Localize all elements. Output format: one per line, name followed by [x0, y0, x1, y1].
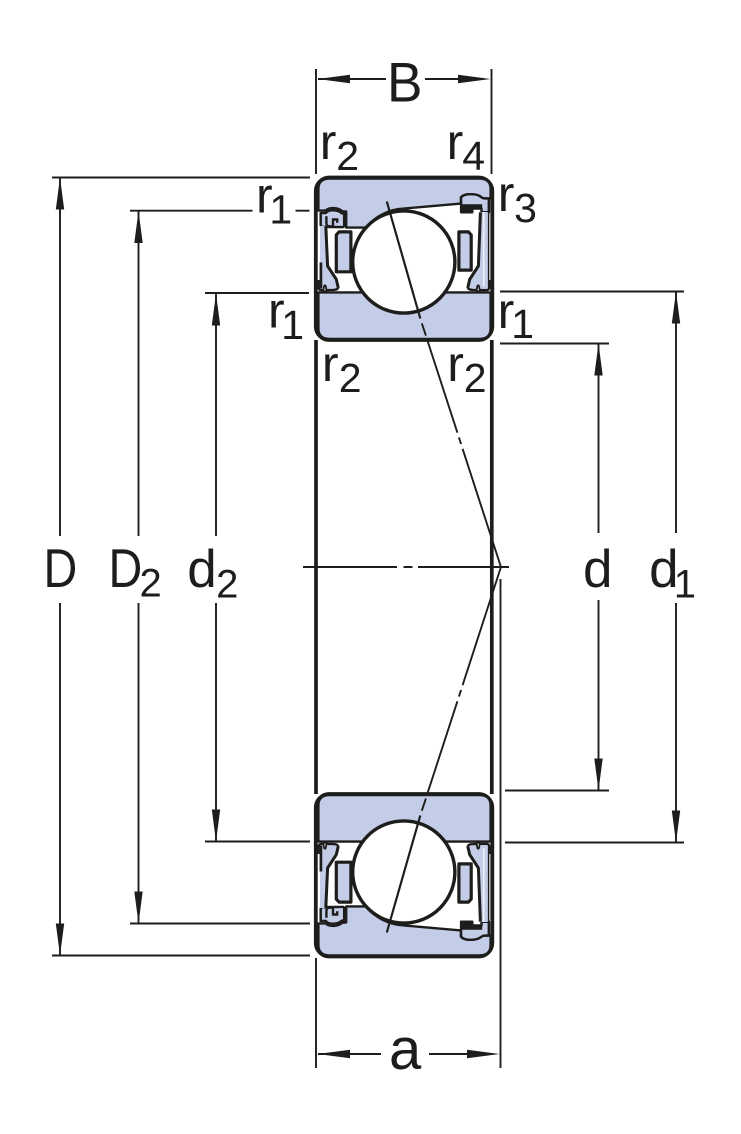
center axis dash-dot: [303, 566, 509, 568]
extension lines d: [500, 344, 609, 791]
extension line a right (contact point): [500, 579, 502, 1068]
extension lines D: [52, 178, 310, 956]
bearing side faces between sections: [316, 340, 492, 794]
svg-text:D: D: [44, 537, 78, 598]
svg-text:1: 1: [511, 301, 534, 347]
svg-text:d: d: [187, 540, 216, 599]
dimension B: [318, 75, 491, 83]
svg-text:r: r: [320, 114, 337, 170]
dimension d2: [212, 294, 220, 842]
svg-text:2: 2: [464, 355, 487, 401]
extension lines D2 (top gap for r1 label): [130, 211, 310, 924]
dimension d1: [672, 292, 680, 843]
svg-text:r: r: [447, 336, 464, 392]
dimension d: [594, 344, 602, 791]
svg-text:3: 3: [514, 185, 537, 231]
svg-text:r: r: [322, 336, 339, 392]
svg-text:1: 1: [281, 302, 304, 348]
svg-text:r: r: [447, 114, 464, 170]
svg-text:1: 1: [674, 563, 696, 607]
svg-text:2: 2: [336, 133, 359, 179]
extension lines d2: [205, 293, 310, 842]
extension line B left: [315, 69, 317, 174]
bottom bearing section (mirror): [316, 568, 501, 957]
dimension D: [56, 178, 64, 956]
svg-text:1: 1: [269, 186, 292, 232]
top bearing section: [316, 178, 501, 567]
extension lines d1: [500, 292, 684, 843]
dimension D2: [134, 211, 142, 924]
svg-text:2: 2: [140, 562, 162, 606]
svg-text:4: 4: [462, 133, 485, 179]
svg-text:a: a: [389, 1017, 422, 1082]
dimension a: [318, 1050, 500, 1058]
svg-text:D: D: [109, 537, 143, 598]
svg-text:B: B: [387, 51, 422, 114]
svg-text:2: 2: [216, 563, 238, 607]
extension line a left: [315, 958, 317, 1068]
extension line B right: [491, 69, 493, 174]
svg-text:2: 2: [339, 355, 362, 401]
svg-text:d: d: [583, 540, 612, 599]
svg-text:r: r: [498, 166, 515, 222]
